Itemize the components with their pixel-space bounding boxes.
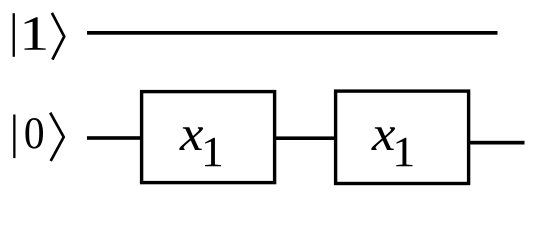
wire segment qubit2 output (right of second gate) xyxy=(467,141,525,145)
wire segment between gates xyxy=(274,136,336,140)
wire qubit1 (top horizontal line) xyxy=(87,31,498,35)
ket label |1> (qubit 1 input state) xyxy=(13,13,65,60)
gate box X1 (second) xyxy=(336,91,469,183)
wire segment qubit2 input (left of first gate) xyxy=(87,136,142,140)
gate label x1 (first box) xyxy=(179,127,221,166)
ket label |0> (qubit 2 input state) xyxy=(13,113,64,161)
gate box X1 (first) xyxy=(142,92,275,183)
gate label x1 (second box) xyxy=(371,127,412,166)
